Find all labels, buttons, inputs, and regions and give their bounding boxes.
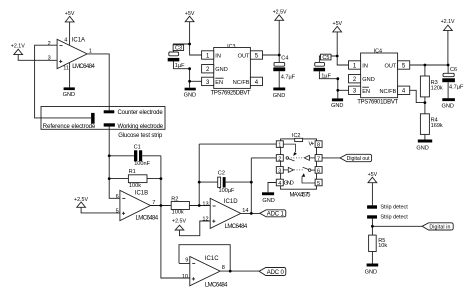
svg-text:Reference electrode: Reference electrode <box>43 124 96 130</box>
svg-text:4.7µF: 4.7µF <box>449 84 464 90</box>
svg-text:100nF: 100nF <box>134 161 150 167</box>
svg-text:12: 12 <box>202 217 208 223</box>
svg-text:2: 2 <box>278 156 281 162</box>
svg-text:+2.5V: +2.5V <box>172 219 186 225</box>
svg-text:GND: GND <box>63 92 75 98</box>
svg-text:GND: GND <box>442 104 454 110</box>
svg-text:8: 8 <box>222 265 225 271</box>
svg-text:GND: GND <box>215 67 227 73</box>
svg-text:IC1C: IC1C <box>205 256 219 262</box>
svg-text:4: 4 <box>64 37 67 43</box>
svg-text:4: 4 <box>278 181 281 187</box>
svg-text:169k: 169k <box>431 123 443 129</box>
svg-text:Glucose test strip: Glucose test strip <box>118 133 163 139</box>
svg-text:C6: C6 <box>450 67 457 73</box>
svg-text:C5: C5 <box>322 55 329 61</box>
svg-text:LMC6484: LMC6484 <box>225 224 248 230</box>
svg-text:Digital out: Digital out <box>347 156 371 162</box>
svg-text:GND: GND <box>362 77 374 83</box>
svg-text:13: 13 <box>202 201 208 207</box>
svg-text:ADC 0: ADC 0 <box>267 270 285 276</box>
svg-text:9: 9 <box>185 258 188 264</box>
svg-text:C1: C1 <box>134 144 141 150</box>
svg-text:EN: EN <box>362 89 370 95</box>
svg-text:3: 3 <box>278 168 281 174</box>
svg-text:TPS76925DBVT: TPS76925DBVT <box>211 91 251 97</box>
svg-text:5: 5 <box>116 209 119 215</box>
svg-text:6: 6 <box>317 168 320 174</box>
svg-text:C4: C4 <box>281 55 288 61</box>
svg-text:GND: GND <box>184 92 196 98</box>
svg-text:TPS76901DBVT: TPS76901DBVT <box>357 100 398 106</box>
svg-text:120k: 120k <box>431 85 443 91</box>
svg-text:GND: GND <box>365 270 377 276</box>
svg-text:100k: 100k <box>172 210 184 216</box>
svg-text:7: 7 <box>152 200 155 206</box>
svg-text:2: 2 <box>48 41 51 47</box>
svg-text:OUT: OUT <box>385 63 397 69</box>
svg-text:Strip detect: Strip detect <box>380 214 408 220</box>
svg-text:NC/FB: NC/FB <box>380 89 397 95</box>
svg-text:4.7µF: 4.7µF <box>281 75 296 81</box>
svg-text:GND: GND <box>262 198 274 204</box>
svg-text:IC1D: IC1D <box>224 199 238 205</box>
svg-text:IN: IN <box>215 53 221 59</box>
svg-text:Digital in: Digital in <box>429 225 450 231</box>
svg-text:1: 1 <box>89 48 92 54</box>
svg-text:1: 1 <box>278 143 281 149</box>
svg-text:Working electrode: Working electrode <box>118 124 164 130</box>
svg-text:ADC 1: ADC 1 <box>267 212 285 218</box>
svg-text:NC/FB: NC/FB <box>233 80 250 86</box>
svg-text:MAX4575: MAX4575 <box>290 192 312 198</box>
svg-text:100µF: 100µF <box>219 188 236 194</box>
svg-text:LMC6484: LMC6484 <box>205 282 228 288</box>
svg-text:11: 11 <box>63 66 69 72</box>
svg-text:LMC6484: LMC6484 <box>136 216 159 222</box>
svg-text:V+: V+ <box>309 141 315 147</box>
svg-text:LMC6484: LMC6484 <box>72 64 95 70</box>
svg-text:8: 8 <box>317 143 320 149</box>
svg-text:C3: C3 <box>175 46 182 52</box>
svg-text:EN: EN <box>215 80 223 86</box>
svg-text:14: 14 <box>242 208 248 214</box>
svg-text:6: 6 <box>116 194 119 200</box>
svg-text:Strip detect: Strip detect <box>380 204 408 210</box>
svg-text:1µF: 1µF <box>321 73 331 79</box>
svg-text:+2.1V: +2.1V <box>441 19 455 25</box>
svg-text:+2.5V: +2.5V <box>273 10 287 16</box>
svg-text:GND: GND <box>416 146 428 152</box>
svg-text:Counter electrode: Counter electrode <box>118 110 164 116</box>
svg-text:5: 5 <box>317 181 320 187</box>
svg-text:IN: IN <box>362 63 368 69</box>
svg-text:7: 7 <box>317 156 320 162</box>
svg-text:10: 10 <box>182 274 188 280</box>
svg-text:GND: GND <box>273 93 285 99</box>
svg-text:IC1B: IC1B <box>135 190 148 196</box>
svg-text:100k: 100k <box>129 183 141 189</box>
svg-text:GND: GND <box>284 181 294 187</box>
svg-text:C2: C2 <box>218 170 225 176</box>
svg-text:10k: 10k <box>378 243 387 249</box>
svg-text:GND: GND <box>331 103 343 109</box>
svg-text:R1: R1 <box>129 169 136 175</box>
svg-text:1µF: 1µF <box>175 63 185 69</box>
svg-text:OUT: OUT <box>238 53 250 59</box>
svg-text:IC1A: IC1A <box>72 38 85 44</box>
